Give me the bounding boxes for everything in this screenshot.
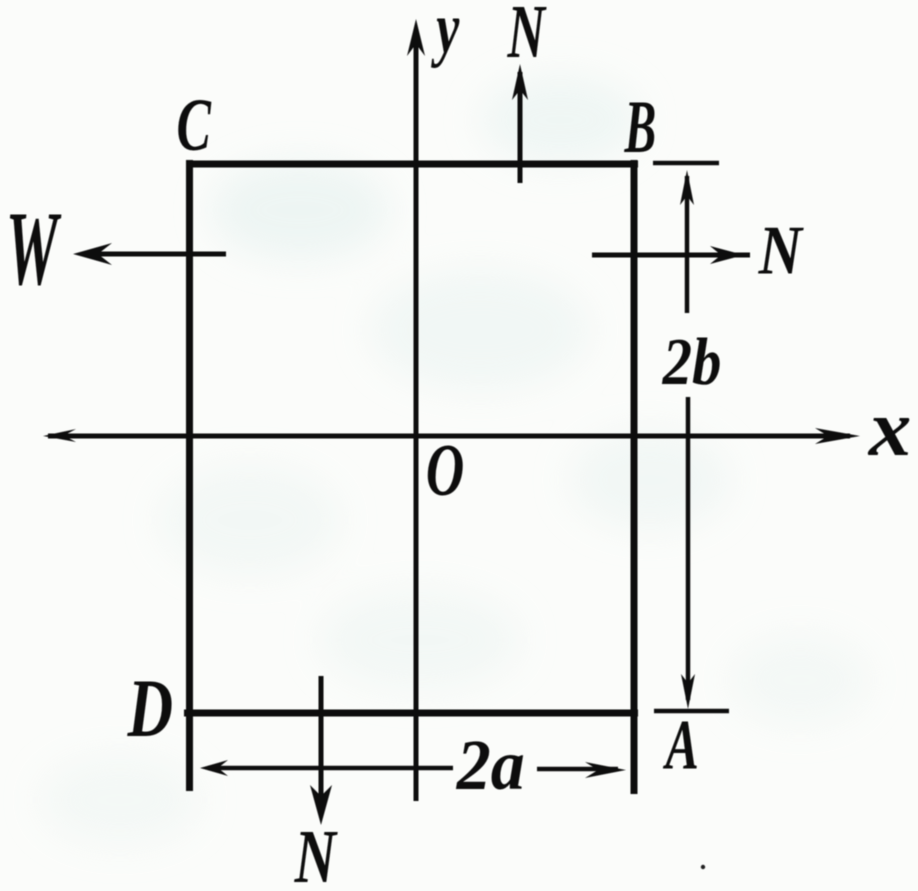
x axis (48, 434, 850, 439)
svg-text:N: N (507, 0, 548, 74)
arrowhead 2b up (680, 170, 694, 205)
arrowhead W (73, 243, 112, 265)
svg-text:2a: 2a (456, 725, 525, 805)
svg-text:N: N (294, 814, 338, 891)
y axis (414, 30, 419, 801)
force N bottom shaft (319, 676, 324, 812)
svg-text:N: N (758, 212, 805, 289)
plate top edge CB (186, 161, 638, 168)
ink speck (701, 865, 705, 869)
force N right shaft (592, 253, 750, 258)
paper tint patches (40, 75, 870, 845)
y axis arrowhead (407, 19, 425, 56)
arrowhead 2a left (200, 760, 228, 776)
plate bottom edge DA (184, 710, 638, 717)
svg-text:O: O (426, 430, 464, 512)
dim 2b lower segment (686, 397, 691, 700)
svg-text:B: B (624, 85, 657, 169)
x axis left end blob (43, 429, 76, 442)
arrowhead N bottom (310, 785, 332, 825)
arrowhead N right (710, 246, 744, 264)
dim 2b upper segment (685, 176, 690, 313)
force W shaft (85, 252, 226, 257)
dim 2b bottom tick (654, 709, 729, 714)
plate right edge (extends below) (631, 160, 638, 794)
dim 2a right segment (537, 767, 618, 772)
force N top shaft (518, 72, 523, 183)
plate left edge (extends below) (186, 160, 193, 791)
svg-text:A: A (662, 706, 699, 785)
dim 2a left segment (208, 766, 453, 771)
arrowhead N top (512, 64, 528, 100)
svg-text:D: D (127, 661, 173, 753)
svg-text:2b: 2b (662, 325, 722, 399)
arrowhead 2a right (585, 762, 626, 778)
svg-text:C: C (177, 82, 212, 166)
arrowhead 2b down (681, 674, 695, 709)
svg-text:x: x (867, 383, 912, 472)
x axis arrowhead (815, 428, 860, 444)
dim 2b top tick (653, 161, 719, 166)
svg-text:W: W (6, 190, 62, 308)
